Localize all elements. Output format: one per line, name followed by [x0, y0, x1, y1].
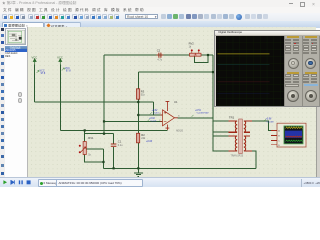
rotate buttons: [18, 92, 23, 97]
wire U1 output to VD: [178, 117, 214, 119]
svg-text:+0.58: +0.58: [266, 119, 273, 121]
power symbol VCC2: [57, 55, 63, 64]
wire RV1 bottom loop: [85, 155, 104, 163]
menu bar: [0, 7, 320, 13]
wire C1 leads: [113, 134, 115, 169]
svg-text:AD620: AD620: [176, 129, 184, 132]
wire TR1 primary stubs to VD: [213, 121, 229, 151]
selected item: [5, 49, 27, 52]
wire Hfb feedback y72: [138, 71, 213, 73]
oscilloscope component: [271, 123, 306, 147]
probe label at VCC2: [62, 67, 71, 73]
trace channel A (yellow): [217, 53, 269, 55]
wire H4 to U1 non-inverting input: [104, 120, 163, 122]
trace channel C (red, faint): [217, 80, 269, 82]
power symbol VCC1: [32, 55, 38, 64]
trace channel B (teal, faint): [217, 63, 269, 65]
wire H5 negative-rail y130.4 to U1 lower power pin: [60, 129, 167, 131]
wire VA from VCC1: [34, 65, 36, 103]
wire RV1 top rail y133.7: [85, 133, 114, 135]
sheet combo box: [125, 14, 158, 20]
left panel (preview + object selector): [5, 27, 28, 177]
svg-text:V=0.807139: V=0.807139: [197, 112, 210, 114]
canvas background with grid: [5, 27, 316, 177]
wire VD vertical x213: [212, 55, 214, 152]
schematic svg: [0, 0, 320, 186]
wire R column x138.3: [137, 72, 139, 168]
oscilloscope popup window: [214, 30, 320, 107]
resistor R3: [137, 89, 146, 99]
probe label at scope input: [264, 119, 275, 124]
capacitor C1: [111, 140, 123, 147]
svg-text:TR1: TR1: [229, 116, 235, 120]
junction dots: [84, 54, 215, 169]
svg-text:V=0.80: V=0.80: [267, 121, 275, 123]
title bar: [0, 0, 320, 7]
svg-text:+0.02: +0.02: [152, 110, 159, 112]
overview/preview box: [5, 28, 26, 45]
transformer TR1: [229, 116, 253, 158]
probe labels at U1 inputs: [148, 110, 160, 123]
wire H1 top rail y55: [104, 54, 213, 56]
svg-text:97.8: 97.8: [41, 72, 46, 75]
op-amp U1: [159, 100, 183, 133]
trace channel D (blue, faint): [217, 92, 269, 94]
svg-text:0.1u: 0.1u: [118, 144, 123, 147]
status bar: [0, 177, 320, 187]
selector header: [5, 46, 27, 50]
svg-text:4.7u: 4.7u: [157, 59, 162, 62]
wire RV1 wiper: [87, 149, 104, 168]
wire VB from VCC2: [59, 65, 61, 131]
wire TR1 secondary bottom to ground rail: [252, 151, 256, 169]
resistor R2: [137, 133, 153, 143]
wire RV2 wiper loop: [195, 55, 208, 62]
svg-text:V=0.5: V=0.5: [153, 113, 160, 115]
probe label at U1 output: [192, 110, 210, 117]
wire RV1 top drop from H5: [84, 130, 86, 141]
wire H3 to U1 inverting input: [138, 114, 162, 116]
wire Hg bottom rail y168.3: [104, 167, 257, 169]
scope control panel: [284, 36, 320, 106]
svg-text:RV1: RV1: [88, 136, 94, 140]
probe label at VCC1: [37, 69, 46, 75]
tab bar: [0, 21, 320, 28]
svg-text:U1: U1: [174, 100, 178, 104]
wire drop from H2 to inverting input line: [153, 102, 155, 115]
right grey strip below scope window: [316, 107, 320, 178]
svg-text:V=0.5: V=0.5: [151, 121, 158, 123]
toolbar: [0, 13, 320, 23]
wire TR1 secondary top to scope pin A: [252, 121, 271, 131]
wire H2 long rail y102: [35, 101, 154, 103]
potentiometer RV1: [79, 136, 94, 157]
scope screen: [216, 36, 285, 106]
wire VC vertical x104: [103, 55, 105, 134]
capacitor C2: [156, 49, 163, 62]
left mode toolbar strip: [0, 27, 6, 177]
ground symbol: [134, 168, 143, 176]
svg-text:97.8: 97.8: [66, 70, 71, 73]
svg-text:TRAN-2P2S: TRAN-2P2S: [231, 154, 244, 157]
scope window title bar: [215, 31, 320, 37]
grid dots: [27, 27, 316, 177]
svg-text:+0.00: +0.00: [146, 140, 153, 143]
potentiometer RV2: [189, 41, 201, 56]
svg-text:C2: C2: [157, 49, 161, 53]
